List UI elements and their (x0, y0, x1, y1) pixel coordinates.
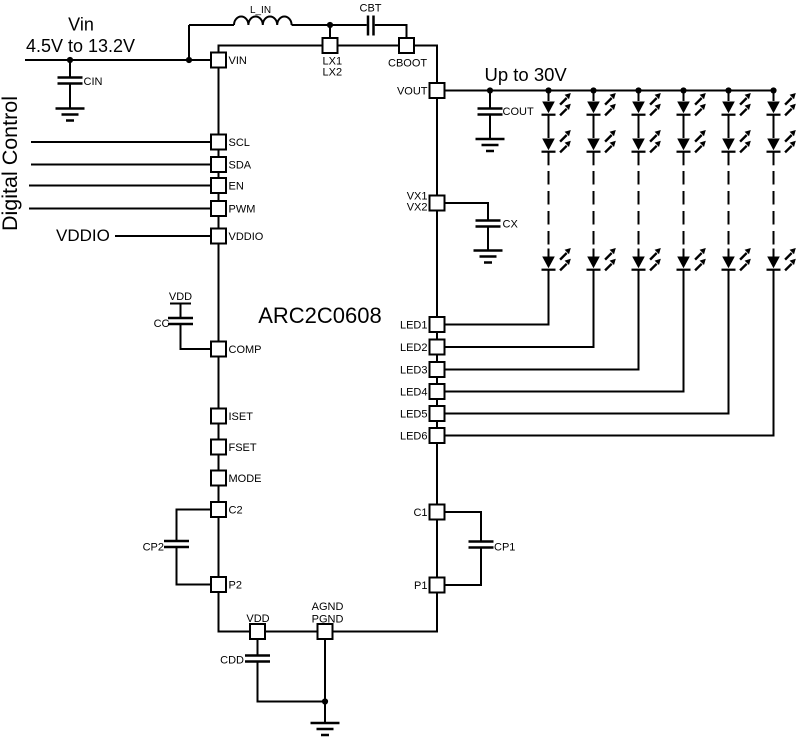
pin FSET (211, 440, 257, 455)
wire VDDIO line (115, 235, 211, 237)
capacitor COUT (478, 109, 503, 115)
capacitor CC (168, 318, 193, 324)
wire CIN to ground (69, 84, 71, 109)
wire PWM line (29, 208, 211, 210)
pin LED6 (400, 428, 445, 443)
svg-text:EN: EN (229, 181, 244, 193)
wire COUT stem (489, 91, 491, 109)
svg-text:SCL: SCL (229, 137, 250, 149)
svg-text:C1: C1 (413, 507, 427, 519)
pin VOUT (397, 83, 445, 98)
pin LX1/LX2 (323, 38, 343, 79)
junction L_IN branch (186, 57, 192, 63)
svg-text:CIN: CIN (84, 76, 103, 88)
wire string 4 return to LED4 pin (445, 270, 684, 392)
pin PWM (211, 201, 255, 216)
capacitor CP2 (164, 541, 189, 547)
svg-text:ISET: ISET (229, 411, 254, 423)
wire C1 to CP1 (445, 512, 482, 542)
wire string 6 dashed continuation (773, 171, 775, 245)
LED string 2 diode C (587, 248, 616, 270)
LED string 6 diode A (767, 93, 796, 115)
wire CP2 to P2 (177, 547, 212, 585)
power symbol VDD (top of CC) (169, 291, 192, 304)
pin VX1/VX2 (407, 191, 445, 214)
svg-text:Up to 30V: Up to 30V (485, 64, 568, 85)
LED string 4 diode A (677, 93, 706, 115)
svg-text:CDD: CDD (220, 655, 244, 667)
wire string 3 return to LED3 pin (445, 270, 639, 370)
wire string 5 segment (728, 115, 730, 138)
svg-text:VDDIO: VDDIO (229, 231, 264, 243)
junction string 6 tap (770, 87, 776, 93)
pin VDD (bottom) (246, 613, 269, 639)
wire string 1 segment (548, 152, 550, 166)
wire CBT to CBOOT corner (375, 25, 407, 39)
wire CX to ground (487, 227, 489, 251)
svg-text:FSET: FSET (229, 442, 257, 454)
wire string 3 dashed continuation (638, 171, 640, 245)
wire inductor rail left (189, 24, 234, 26)
wire VDD pin to CDD (257, 639, 259, 656)
wire string 1 dashed continuation (548, 171, 550, 245)
wire LX stem (329, 25, 331, 39)
wire COUT to ground (489, 115, 491, 140)
svg-text:ARC2C0608: ARC2C0608 (258, 303, 382, 328)
svg-text:VIN: VIN (229, 55, 247, 67)
wire string 1 anode drop (548, 91, 550, 102)
svg-text:CC: CC (154, 318, 170, 330)
wire C2 to CP2 (177, 510, 212, 542)
wire string 2 return to LED2 pin (445, 270, 594, 347)
LED string 3 diode B (632, 130, 661, 152)
wire string 5 return to LED5 pin (445, 270, 729, 414)
svg-text:COMP: COMP (229, 344, 262, 356)
LED string 1 diode A (542, 93, 571, 115)
wire string 2 segment (593, 115, 595, 138)
capacitor CP1 (469, 542, 494, 548)
svg-text:SDA: SDA (229, 160, 252, 172)
svg-text:COUT: COUT (503, 106, 534, 118)
junction string 1 tap (545, 87, 551, 93)
LED string 4 diode B (677, 130, 706, 152)
junction string 2 tap (590, 87, 596, 93)
wire CIN stem (69, 60, 71, 78)
svg-text:CBOOT: CBOOT (388, 58, 427, 70)
wire string 3 anode drop (638, 91, 640, 102)
svg-text:CP2: CP2 (143, 542, 164, 554)
wire Vin input rail (25, 59, 211, 61)
wire VDD bar to CC (180, 304, 182, 319)
svg-text:AGND: AGND (312, 601, 344, 613)
svg-text:L_IN: L_IN (250, 5, 271, 16)
wire EN line (29, 185, 211, 187)
pin EN (211, 178, 244, 193)
svg-text:CX: CX (503, 219, 519, 231)
svg-text:CP1: CP1 (494, 542, 515, 554)
svg-text:VOUT: VOUT (397, 86, 428, 98)
LED string 3 diode A (632, 93, 661, 115)
LED string 1 diode B (542, 130, 571, 152)
LED string 2 diode A (587, 93, 616, 115)
wire string 3 lower stem (638, 249, 640, 258)
wire CC to COMP pin (181, 324, 212, 349)
ground below CX (474, 251, 503, 263)
wire string 2 anode drop (593, 91, 595, 102)
junction LX tap (327, 22, 333, 28)
capacitor CX (476, 221, 501, 227)
ground below CIN (56, 109, 85, 121)
wire string 4 segment (683, 115, 685, 138)
LED string 5 diode B (722, 130, 751, 152)
capacitor CBT (368, 16, 374, 36)
wire string 6 segment (773, 152, 775, 166)
svg-text:LED3: LED3 (400, 365, 428, 377)
capacitor CDD (245, 656, 270, 662)
wire SCL line (31, 141, 211, 143)
wire string 2 dashed continuation (593, 171, 595, 245)
pin P1 (414, 578, 444, 593)
svg-text:PWM: PWM (229, 204, 256, 216)
svg-text:VDD: VDD (169, 291, 192, 303)
wire string 1 lower stem (548, 249, 550, 258)
LED string 4 diode C (677, 248, 706, 270)
wire string 2 segment (593, 152, 595, 166)
inductor L_IN (234, 17, 292, 26)
LED string 6 diode C (767, 248, 796, 270)
svg-text:P1: P1 (414, 580, 427, 592)
svg-text:4.5V to 13.2V: 4.5V to 13.2V (26, 36, 135, 56)
wire string 4 dashed continuation (683, 171, 685, 245)
wire string 3 segment (638, 115, 640, 138)
wire CDD to ground junction (258, 662, 326, 702)
LED string 6 diode B (767, 130, 796, 152)
svg-text:LED4: LED4 (400, 387, 428, 399)
ground below COUT (476, 139, 505, 151)
LED string 5 diode A (722, 93, 751, 115)
pin SCL (211, 135, 250, 150)
wire string 4 lower stem (683, 249, 685, 258)
svg-text:LED5: LED5 (400, 409, 428, 421)
junction CIN tap (67, 57, 73, 63)
wire string 5 anode drop (728, 91, 730, 102)
wire string 6 anode drop (773, 91, 775, 102)
pin VDDIO (211, 229, 264, 244)
wire AGND/PGND to ground (324, 639, 326, 723)
pin VIN (211, 53, 247, 68)
pin LED2 (400, 340, 445, 355)
svg-text:LX2: LX2 (323, 67, 343, 79)
wire string 4 segment (683, 152, 685, 166)
junction string 5 tap (725, 87, 731, 93)
svg-text:Digital Control: Digital Control (0, 96, 22, 231)
junction ground node (322, 698, 328, 704)
svg-text:C2: C2 (229, 505, 243, 517)
svg-text:MODE: MODE (229, 473, 262, 485)
wire inductor to CBT (292, 24, 367, 26)
svg-text:CBT: CBT (360, 3, 382, 15)
wire string 4 anode drop (683, 91, 685, 102)
pin LED1 (400, 317, 445, 332)
pin CBOOT (388, 38, 427, 70)
wire VX to CX (445, 203, 489, 221)
op-amp/driver IC U1 ARC2C0608 body (219, 46, 438, 632)
svg-text:VDD: VDD (246, 613, 269, 625)
pin P2 (211, 577, 242, 592)
pin MODE (211, 471, 262, 486)
capacitor CIN (58, 78, 83, 84)
svg-text:PGND: PGND (312, 614, 344, 626)
wire string 5 segment (728, 152, 730, 166)
svg-text:VX2: VX2 (407, 202, 428, 214)
LED string 2 diode B (587, 130, 616, 152)
wire string 6 return to LED6 pin (445, 270, 774, 436)
pin C1 (413, 505, 444, 520)
junction string 3 tap (635, 87, 641, 93)
svg-text:Vin: Vin (68, 15, 94, 35)
pin AGND/PGND (312, 601, 344, 639)
wire string 2 lower stem (593, 249, 595, 258)
svg-text:LED1: LED1 (400, 320, 428, 332)
pin SDA (211, 157, 252, 172)
LED string 3 diode C (632, 248, 661, 270)
junction COUT tap (487, 87, 493, 93)
wire string 1 segment (548, 115, 550, 138)
wire string 1 return to LED1 pin (445, 270, 549, 325)
svg-text:LED6: LED6 (400, 431, 428, 443)
wire string 6 segment (773, 115, 775, 138)
LED string 1 diode C (542, 248, 571, 270)
wire string 5 dashed continuation (728, 171, 730, 245)
pin ISET (211, 409, 253, 424)
LED string 5 diode C (722, 248, 751, 270)
svg-text:P2: P2 (229, 580, 242, 592)
wire VOUT rail (445, 90, 774, 92)
svg-text:LED2: LED2 (400, 342, 428, 354)
pin LED4 (400, 384, 445, 399)
wire riser to inductor rail (188, 25, 190, 60)
pin C2 (211, 502, 243, 517)
junction string 4 tap (680, 87, 686, 93)
wire string 6 lower stem (773, 249, 775, 258)
pin COMP (211, 342, 262, 357)
wire string 5 lower stem (728, 249, 730, 258)
wire string 3 segment (638, 152, 640, 166)
pin LED5 (400, 406, 445, 421)
svg-text:VDDIO: VDDIO (56, 226, 110, 245)
wire CP1 to P1 (445, 548, 482, 586)
ground below AGND/PGND (311, 723, 340, 735)
wire SDA line (31, 164, 211, 166)
pin LED3 (400, 362, 445, 377)
